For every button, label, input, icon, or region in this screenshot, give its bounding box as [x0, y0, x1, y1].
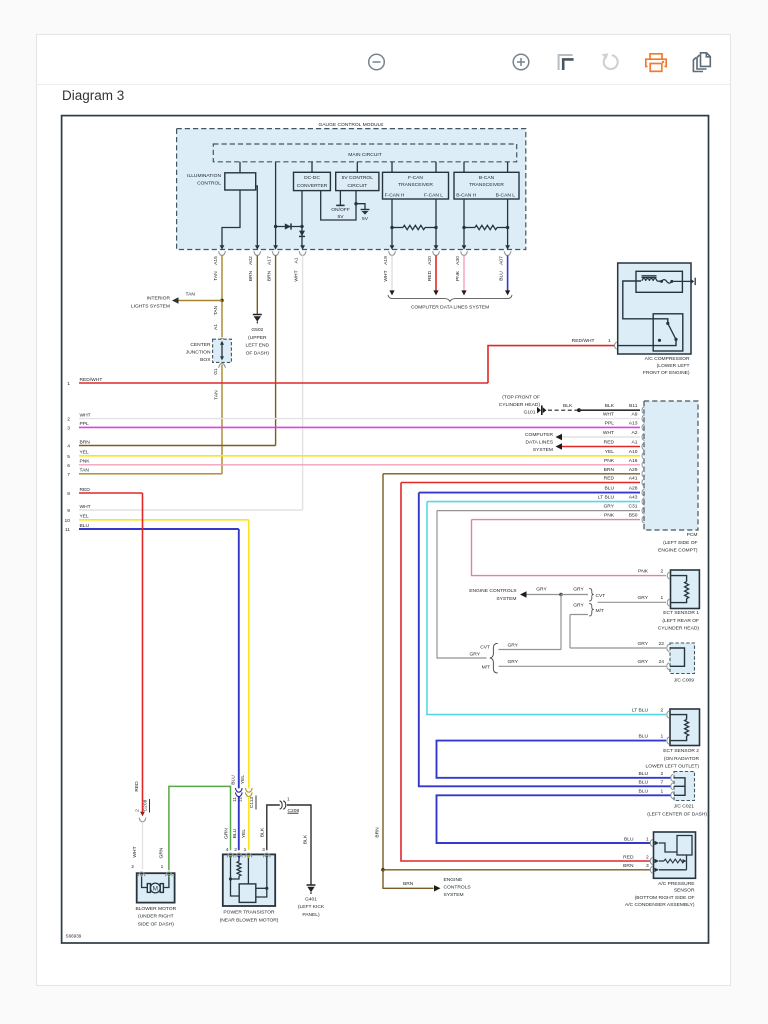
svg-text:BRN: BRN	[403, 881, 414, 887]
A/C pressure sensor internals	[655, 841, 660, 845]
svg-text:2: 2	[131, 864, 134, 870]
svg-text:5V CONTROL: 5V CONTROL	[342, 175, 374, 181]
wire row 8 RED	[79, 492, 143, 494]
svg-text:LEFT END: LEFT END	[246, 343, 270, 349]
compressor output pin	[691, 279, 695, 284]
svg-text:GRY: GRY	[603, 504, 614, 510]
junction on BLK wire	[577, 408, 581, 412]
power transistor pin connector	[263, 853, 270, 857]
svg-text:TAN: TAN	[80, 468, 90, 474]
svg-text:PNK: PNK	[638, 569, 649, 575]
svg-text:TAN: TAN	[213, 271, 219, 281]
svg-text:3: 3	[262, 847, 265, 853]
clutch coil	[642, 275, 657, 277]
svg-text:A/C COMPRESSOR: A/C COMPRESSOR	[645, 356, 690, 362]
junction DC-DC left output	[300, 225, 303, 228]
svg-text:(ON RADIATOR: (ON RADIATOR	[664, 756, 700, 762]
svg-text:J/C C009: J/C C009	[674, 677, 695, 683]
wire GRN blower pin 1 to power transistor pin 4	[169, 786, 231, 870]
J/C C021 dashed box	[674, 772, 695, 801]
GCM connector pin A30	[462, 245, 467, 250]
svg-text:1: 1	[646, 836, 649, 842]
svg-text:WHT: WHT	[80, 412, 91, 418]
pressure switch contacts	[666, 322, 669, 325]
riser BRN A29 down to junction	[382, 474, 384, 870]
inline connector C208 pin 2 (red/wht)	[140, 812, 145, 816]
svg-text:F-CAN: F-CAN	[408, 175, 423, 181]
svg-text:A10: A10	[629, 449, 638, 455]
wire BLK to PCM B11	[579, 409, 640, 411]
svg-text:2: 2	[661, 708, 664, 714]
wire TAN from pin A15	[221, 255, 223, 300]
svg-text:CONVERTER: CONVERTER	[297, 183, 328, 189]
svg-text:SYSTEM: SYSTEM	[496, 596, 516, 602]
svg-text:1: 1	[161, 864, 164, 870]
svg-text:7: 7	[67, 472, 70, 478]
svg-text:SENSOR: SENSOR	[674, 888, 695, 894]
svg-text:PNK: PNK	[80, 459, 91, 465]
wire switch to RED/WHT pin 1	[619, 339, 677, 345]
toolbar zoom-out icon	[369, 54, 385, 70]
wire WHT A2 from computer data lines system	[562, 436, 640, 438]
svg-text:10: 10	[65, 518, 71, 524]
wire dc-dc left output down	[301, 191, 303, 227]
ECT sensor 1 box	[671, 570, 700, 609]
riser RED A41 down to A/C pressure pin 2	[401, 483, 650, 862]
GCM connector pin A07	[505, 245, 510, 250]
diagram border frame	[62, 116, 709, 943]
svg-text:6: 6	[67, 463, 70, 469]
svg-text:YEL: YEL	[240, 775, 246, 785]
svg-text:A17: A17	[266, 256, 272, 265]
toolbar print icon (orange)	[646, 54, 666, 72]
svg-text:TAN: TAN	[214, 390, 220, 400]
svg-text:ECT SENSOR 2: ECT SENSOR 2	[663, 748, 699, 754]
svg-text:C208: C208	[143, 799, 149, 811]
svg-text:BLU: BLU	[230, 775, 236, 785]
wire GRY merged to ECT sensor 1 pin 1	[598, 601, 667, 603]
svg-text:GRN: GRN	[159, 847, 165, 858]
svg-text:A41: A41	[629, 476, 638, 482]
svg-text:BRN: BRN	[623, 863, 634, 869]
power transistor internals	[231, 858, 240, 896]
svg-text:12: 12	[238, 797, 244, 803]
wire GRY CVT branch	[499, 649, 562, 651]
junction GRY	[559, 593, 563, 597]
wire WHT to blower motor pin 2	[142, 822, 144, 870]
wire to 5v internal ground	[356, 204, 365, 210]
svg-text:RED/WHT: RED/WHT	[572, 338, 595, 344]
diode D1	[285, 223, 291, 229]
arrow to computer data lines	[433, 290, 438, 295]
wire main circuit to dc-dc	[311, 162, 313, 173]
svg-text:G401: G401	[305, 896, 317, 902]
5v control circuit box	[336, 172, 379, 190]
blower motor pin 1 connector	[166, 872, 173, 876]
svg-text:4: 4	[226, 847, 229, 853]
riser GRY C31 down to CVT/MT split	[437, 511, 487, 658]
svg-text:1: 1	[608, 338, 611, 344]
svg-text:CIRCUIT: CIRCUIT	[347, 183, 367, 189]
svg-text:F-CAN H: F-CAN H	[385, 192, 405, 198]
thermal protector	[657, 280, 660, 282]
wire TAN to center junction box	[221, 301, 223, 338]
svg-text:BLU: BLU	[604, 486, 614, 492]
wire RED A1 from computer data lines system	[562, 446, 640, 448]
svg-text:LT BLU: LT BLU	[632, 708, 649, 714]
blower motor pin 2 connector	[138, 872, 145, 876]
svg-text:5: 5	[67, 454, 70, 460]
svg-text:GAUGE CONTROL MODULE: GAUGE CONTROL MODULE	[318, 122, 384, 128]
svg-text:GRY: GRY	[573, 586, 584, 592]
svg-text:1: 1	[661, 595, 664, 601]
svg-text:B11: B11	[629, 403, 638, 409]
svg-text:2: 2	[67, 417, 70, 423]
svg-text:BLU: BLU	[80, 523, 90, 529]
wire main circuit to pin A17	[275, 162, 277, 246]
svg-text:2: 2	[661, 569, 664, 575]
blower motor box	[137, 873, 175, 902]
svg-text:BLK: BLK	[260, 827, 266, 837]
svg-text:(LEFT SIDE OF: (LEFT SIDE OF	[663, 540, 697, 546]
svg-text:F-CAN L: F-CAN L	[424, 192, 443, 198]
svg-text:YEL: YEL	[80, 450, 90, 456]
wire BLU ECT sensor 2 pin 1 to J/C C021 pin 2	[437, 741, 671, 778]
riser LT BLU A43 down to ECT sensor 2 pin 2	[427, 502, 666, 715]
svg-text:9: 9	[67, 508, 70, 514]
svg-text:A20: A20	[427, 256, 433, 265]
svg-text:M/T: M/T	[596, 608, 604, 614]
dc-dc converter box	[294, 172, 331, 190]
svg-text:(UNDER RIGHT: (UNDER RIGHT	[138, 914, 174, 920]
svg-text:LT BLU: LT BLU	[598, 495, 615, 501]
svg-text:BRN: BRN	[80, 439, 91, 445]
svg-text:3: 3	[67, 425, 70, 431]
svg-text:RED: RED	[427, 270, 433, 281]
wire GRY to J/C C009 pin 22	[570, 614, 588, 616]
svg-text:GRY: GRY	[508, 659, 519, 665]
power transistor pin connector	[245, 853, 252, 857]
wire PNK B50	[472, 519, 641, 521]
wire RED A41	[401, 482, 640, 484]
svg-text:RED: RED	[623, 854, 634, 860]
svg-text:DC-DC: DC-DC	[304, 175, 320, 181]
arrow to computer data lines	[505, 290, 510, 295]
power transistor chip	[239, 884, 256, 903]
svg-text:DATA LINES: DATA LINES	[525, 440, 553, 446]
svg-text:24: 24	[659, 659, 665, 665]
brace { lower split	[490, 643, 498, 673]
ECT sensor 2 internal resistor	[670, 715, 687, 720]
svg-text:GRY: GRY	[637, 595, 648, 601]
GCM connector pin A19	[390, 245, 395, 250]
PCM dashed box	[644, 401, 698, 530]
b-can transceiver box	[454, 172, 519, 199]
riser PNK B50 down to ECT sensor 1 pin 2	[472, 520, 667, 576]
blower motor internal wiring	[142, 877, 148, 888]
power transistor pin connector	[236, 853, 243, 857]
GCM connector pin A1	[300, 245, 305, 250]
A/C compressor clutch coil box	[636, 271, 682, 292]
svg-text:GRY: GRY	[508, 642, 519, 648]
svg-text:LOWER LEFT OUTLET): LOWER LEFT OUTLET)	[646, 763, 700, 769]
svg-text:A29: A29	[629, 467, 638, 473]
svg-text:A43: A43	[629, 495, 638, 501]
CJB bottom connector G1	[219, 364, 226, 368]
wire f-can l to pin A20	[435, 199, 437, 246]
svg-text:BLU: BLU	[498, 271, 504, 281]
wire row 3 PPL	[79, 426, 640, 428]
svg-text:A15: A15	[213, 256, 219, 265]
svg-text:2: 2	[661, 771, 664, 777]
svg-text:TAN: TAN	[186, 291, 196, 297]
svg-text:WHT: WHT	[80, 504, 91, 510]
svg-text:(LEFT REAR OF: (LEFT REAR OF	[662, 618, 699, 624]
motor M symbol	[150, 883, 160, 893]
wire row 11 BLU	[79, 528, 239, 530]
svg-text:SIDE OF DASH): SIDE OF DASH)	[138, 921, 175, 927]
diode D2 vertical on pin A1 wire	[301, 227, 303, 246]
wire b-can l to pin A07	[507, 199, 509, 246]
svg-text:GRY: GRY	[469, 652, 480, 658]
f-can termination resistor	[390, 226, 393, 229]
svg-text:SYSTEM: SYSTEM	[444, 892, 464, 898]
wire TAN branch to interior lights system	[179, 300, 223, 302]
wire coil left to pressure switch	[623, 281, 668, 323]
svg-text:CYLINDER HEAD): CYLINDER HEAD)	[658, 625, 700, 631]
svg-text:C31: C31	[629, 504, 638, 510]
svg-text:INTERIOR: INTERIOR	[147, 296, 171, 302]
wire BRN branch to engine controls system	[383, 870, 434, 889]
svg-text:TAN: TAN	[213, 305, 219, 315]
wire illumination box right to pin A02	[256, 186, 258, 246]
svg-text:BLK: BLK	[303, 834, 309, 844]
toolbar zoom-in icon	[513, 54, 529, 70]
wire row 4 BRN	[79, 445, 276, 447]
wire row 7 TAN	[79, 473, 222, 475]
wire dc-dc right output to 5v control circuit	[321, 191, 356, 220]
svg-text:CONTROL: CONTROL	[197, 181, 221, 187]
power transistor pin connector	[227, 853, 234, 857]
GCM connector pin A02	[255, 245, 260, 250]
svg-text:7: 7	[661, 779, 664, 785]
svg-text:BOX: BOX	[200, 357, 211, 363]
svg-text:A16: A16	[629, 458, 638, 464]
wire BRN pin A02 to ground G502	[256, 255, 258, 314]
GCM connector pin A15	[220, 245, 225, 250]
svg-text:PPL: PPL	[80, 421, 90, 427]
svg-text:JUNCTION: JUNCTION	[186, 350, 211, 356]
power transistor box	[223, 854, 275, 906]
riser GRY CVT branch up to junction	[560, 595, 562, 650]
wire BRN pin A17 down to row 4	[275, 255, 277, 445]
svg-text:ON/OFF: ON/OFF	[331, 207, 349, 213]
CJB internal double arrow	[221, 344, 223, 358]
svg-text:BLU: BLU	[232, 828, 238, 838]
svg-text:BRN: BRN	[248, 270, 254, 281]
svg-text:G101: G101	[524, 409, 536, 415]
svg-text:CENTER: CENTER	[190, 342, 211, 348]
svg-text:4: 4	[67, 444, 70, 450]
svg-text:2: 2	[135, 809, 141, 812]
svg-text:2: 2	[234, 847, 237, 853]
J/C C009 internal bus	[670, 648, 685, 666]
svg-text:1: 1	[661, 734, 664, 740]
svg-text:ENGINE: ENGINE	[444, 877, 463, 883]
svg-text:M: M	[153, 886, 158, 893]
svg-text:B-CAN L: B-CAN L	[496, 192, 516, 198]
junction TAN interior lights branch	[220, 299, 223, 302]
svg-text:1: 1	[661, 788, 664, 794]
GCM connector pin A20	[434, 245, 439, 250]
main circuit dashed box	[213, 144, 516, 162]
svg-text:CVT: CVT	[480, 644, 490, 650]
svg-text:YEL: YEL	[80, 514, 90, 520]
svg-text:BLU: BLU	[638, 788, 648, 794]
svg-text:A28: A28	[629, 486, 638, 492]
svg-text:GRY: GRY	[637, 641, 648, 647]
svg-text:(BOTTOM RIGHT SIDE OF: (BOTTOM RIGHT SIDE OF	[635, 895, 695, 901]
svg-text:COMPUTER: COMPUTER	[525, 432, 553, 438]
toolbar pages/copy icon	[693, 53, 710, 72]
inline connector C113 pin 12 (yellow)	[245, 788, 252, 792]
svg-text:ENGINE COMPT): ENGINE COMPT)	[658, 548, 698, 554]
svg-text:S66939: S66939	[66, 934, 82, 939]
svg-text:BLU: BLU	[638, 734, 648, 740]
wire BLK C208 to ground G401	[287, 805, 311, 885]
svg-text:MAIN CIRCUIT: MAIN CIRCUIT	[348, 152, 381, 158]
svg-text:BLOWER MOTOR: BLOWER MOTOR	[135, 906, 176, 912]
wire GRY M/T branch to J/C C009 pin 24	[499, 665, 667, 667]
b-can termination resistor	[462, 226, 465, 229]
A/C pressure switch box	[653, 314, 683, 351]
svg-text:5V: 5V	[362, 216, 369, 222]
svg-text:J/C C021: J/C C021	[674, 803, 695, 809]
svg-text:WHT: WHT	[383, 270, 389, 281]
svg-text:RED: RED	[80, 487, 91, 493]
svg-text:PNK: PNK	[604, 458, 615, 464]
svg-text:RED/WHT: RED/WHT	[80, 377, 103, 383]
svg-text:BLU: BLU	[624, 836, 634, 842]
svg-text:(NEAR BLOWER MOTOR): (NEAR BLOWER MOTOR)	[220, 917, 279, 923]
svg-text:COMPUTER DATA LINES SYSTEM: COMPUTER DATA LINES SYSTEM	[411, 305, 489, 311]
svg-text:C113: C113	[249, 797, 255, 809]
svg-text:POWER TRANSISTOR: POWER TRANSISTOR	[223, 910, 275, 916]
on/off 5v output terminal	[339, 191, 341, 206]
svg-text:1: 1	[67, 381, 70, 387]
svg-text:WHT: WHT	[603, 412, 614, 418]
wire BLU A28	[419, 492, 640, 494]
svg-text:BLU: BLU	[638, 771, 648, 777]
inline connector C208 pin 1 (black)	[280, 801, 283, 809]
wire row 5 YEL	[79, 455, 640, 457]
svg-text:A13: A13	[629, 420, 638, 426]
computer data line wire	[507, 255, 509, 290]
wire GRY junction to CVT brace	[561, 594, 588, 596]
svg-text:A1: A1	[293, 257, 299, 263]
ECT sensor 2 box	[670, 709, 700, 746]
svg-text:BLK: BLK	[563, 403, 573, 409]
svg-text:A1: A1	[632, 440, 638, 446]
svg-text:A2: A2	[632, 430, 638, 436]
svg-text:RED: RED	[604, 440, 615, 446]
svg-text:A07: A07	[498, 256, 504, 265]
svg-text:WHT: WHT	[132, 846, 138, 857]
ECT sensor 1 internal resistor	[671, 576, 687, 582]
svg-text:A/C PRESSURE: A/C PRESSURE	[658, 881, 695, 887]
svg-text:PCM: PCM	[687, 532, 698, 538]
wire row 6 PNK	[79, 464, 640, 466]
svg-text:G502: G502	[251, 327, 263, 333]
wire 10 YEL down to power transistor	[248, 520, 250, 789]
wire coil to compressor pin	[672, 280, 691, 282]
ground G502	[253, 314, 262, 316]
svg-text:GRY: GRY	[573, 602, 584, 608]
svg-text:CONTROLS: CONTROLS	[444, 885, 472, 891]
wire row 2 WHT	[79, 418, 640, 420]
svg-text:11: 11	[65, 527, 70, 533]
wires main circuit to b-can	[463, 162, 465, 173]
toolbar rotate icon (disabled)	[604, 55, 618, 69]
wire LT BLU A43	[427, 501, 640, 503]
svg-text:2: 2	[646, 854, 649, 860]
svg-text:A30: A30	[455, 256, 461, 265]
svg-text:WHT: WHT	[603, 430, 614, 436]
wire main circuit to illumination box	[239, 162, 241, 173]
J/C C009 dashed box	[670, 643, 695, 674]
svg-text:BRN: BRN	[266, 270, 272, 281]
inline connector C113 pin 11 (blue)	[235, 788, 242, 792]
diode D1 wire A17 to DC-DC output	[276, 226, 302, 228]
svg-text:YEL: YEL	[241, 829, 247, 839]
svg-text:1: 1	[244, 847, 247, 853]
junction on A17 wire	[274, 225, 277, 228]
ground 5V (internal)	[361, 209, 370, 211]
wire BRN A29 from PCM to A/C pressure sensor area	[383, 473, 640, 475]
svg-text:TRANSCEIVER: TRANSCEIVER	[469, 182, 504, 188]
wire illumination box to pin A15	[222, 190, 240, 246]
A/C compressor box	[618, 263, 691, 354]
svg-text:YEL: YEL	[605, 449, 615, 455]
ground G401	[307, 884, 316, 886]
GCM connector pin A17	[273, 245, 278, 250]
wire row 10 YEL	[79, 519, 249, 521]
svg-text:(TOP FRONT OF: (TOP FRONT OF	[502, 394, 540, 400]
wire BLU J/C C021 pin 1 to A/C pressure sensor pin 1	[437, 795, 671, 843]
svg-text:M/T: M/T	[482, 664, 490, 670]
svg-text:A1: A1	[213, 324, 219, 330]
svg-text:ILLUMINATION: ILLUMINATION	[187, 173, 221, 179]
wires main circuit to f-can	[391, 162, 393, 173]
wire GRY C31	[437, 510, 640, 512]
svg-text:PNK: PNK	[604, 513, 615, 519]
computer data line wire	[391, 255, 393, 290]
svg-text:BLK: BLK	[605, 403, 615, 409]
arrow to computer data lines	[389, 290, 394, 295]
wire WHT pin A1 down to row 9	[302, 255, 304, 510]
wire 8 RED down to C208	[142, 493, 144, 812]
svg-text:TRANSCEIVER: TRANSCEIVER	[398, 182, 433, 188]
wire row 1 RED/WHT	[79, 382, 488, 384]
center junction box	[219, 339, 226, 343]
J/C C021 internal bus	[674, 778, 685, 796]
svg-text:CYLINDER HEAD): CYLINDER HEAD)	[499, 402, 541, 408]
wire BRN to A/C pressure sensor pin 3	[383, 869, 650, 871]
svg-text:(LEFT KICK: (LEFT KICK	[298, 904, 325, 910]
svg-text:SYSTEM: SYSTEM	[533, 447, 553, 453]
svg-text:BLU: BLU	[638, 779, 648, 785]
svg-text:A19: A19	[383, 256, 389, 265]
